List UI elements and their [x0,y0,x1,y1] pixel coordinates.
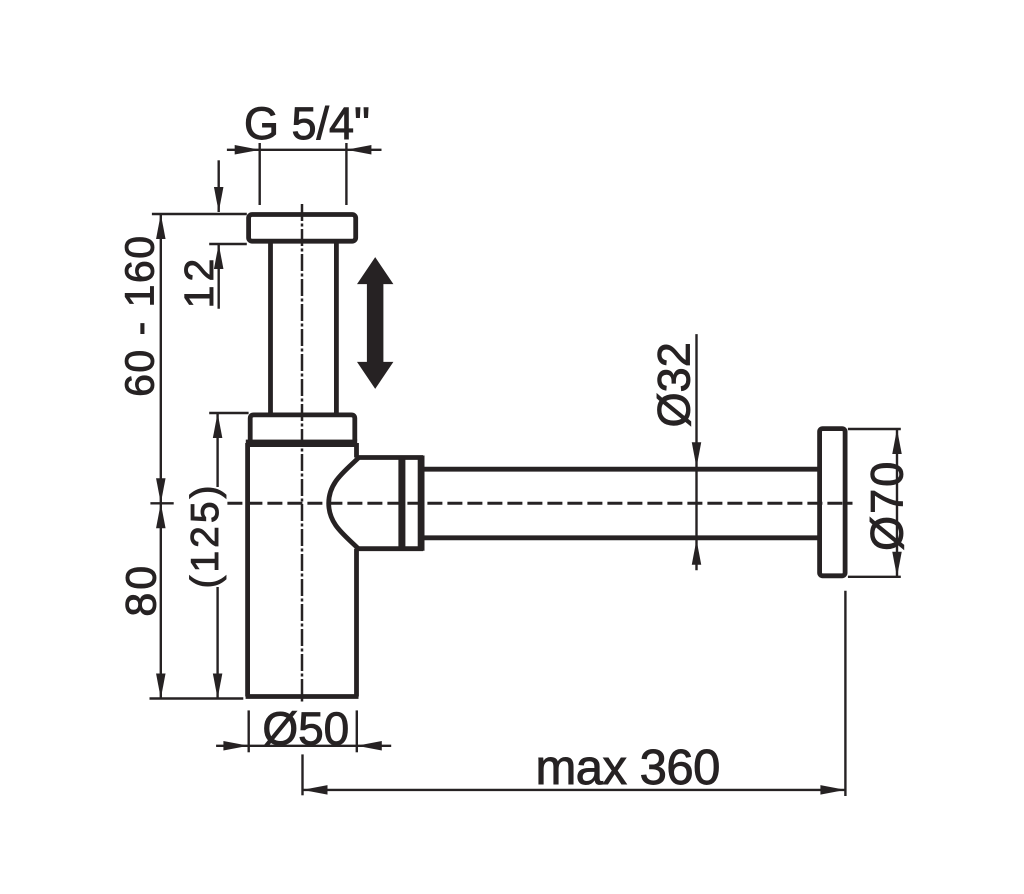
svg-text:max 360: max 360 [535,741,719,795]
outlet pipe top wall [425,467,818,472]
dimension max360 right extension [844,591,846,796]
arrowhead D70 top [892,429,902,454]
centerline vertical dash-dot [301,204,304,703]
elbow nut right edge [418,456,425,551]
dimension D50 line [216,745,391,747]
arrowhead 60-160 bottom [156,478,166,503]
arrowhead D32 top [692,442,702,467]
adjustment double arrow [357,257,393,389]
dimension max360 line [303,789,846,791]
centerline horizontal dashed [227,502,852,505]
arrowhead G5/4 right [346,145,371,155]
dimension max360 left extension [301,754,303,795]
dimension 12 lower leader [217,244,219,309]
top pipe tube left wall [268,243,273,414]
trap body cup left wall [245,443,250,697]
wall flange [820,429,846,576]
arrowhead 80 bottom [156,674,166,699]
arrowhead 12 top [214,187,224,212]
arrowhead 12 bottom [214,244,224,269]
svg-text:80: 80 [118,563,166,617]
extension line body bottom [150,697,244,699]
dimension 60-160 line [160,214,162,503]
svg-text:60 - 160: 60 - 160 [117,234,163,396]
arrowhead D32 bottom [692,540,702,565]
dimension 80 line [160,503,162,698]
elbow bullet curve [329,458,359,549]
outlet pipe bottom wall [425,535,818,540]
elbow outlet top edge [358,455,423,460]
dimension D32 leader through pipe [695,334,697,570]
arrowhead D50 left [223,741,248,751]
lower union nut [250,415,355,441]
trap body cup right wall upper segment [354,443,359,458]
svg-text:Ø50: Ø50 [262,703,349,755]
svg-text:G 5/4": G 5/4" [244,98,370,149]
dimension G 5/4 left extension [259,143,261,205]
svg-text:Ø70: Ø70 [861,460,912,551]
arrowhead 60-160 top [156,214,166,239]
dimension D70 top extension [848,428,901,430]
arrowhead max360 left [303,785,328,795]
trap body cup right wall lower segment [354,549,359,697]
arrowhead D70 bottom [892,552,902,577]
dimension G 5/4 right extension [345,143,347,205]
arrowhead G5/4 left [235,145,260,155]
dimension 125 line lower [216,587,218,699]
extension line flange bottom [209,243,247,245]
centerline tick left [150,502,173,504]
dimension G 5/4 line [227,149,382,151]
dimension D70 line [896,429,898,577]
svg-text:(125): (125) [184,482,227,588]
elbow outlet bottom edge [358,546,423,551]
svg-text:Ø32: Ø32 [648,342,699,427]
dimension 125 line upper [216,413,218,487]
extension line nut top [209,412,248,414]
dimension 12 upper leader [217,160,219,212]
arrowhead max360 right [820,785,845,795]
arrowhead D50 right [357,741,382,751]
arrowhead 125 bottom [213,674,223,699]
flange top nut G5/4 [249,215,356,242]
svg-text:12: 12 [176,255,222,309]
extension line flange top [152,213,247,215]
arrowhead 80 top [156,503,166,528]
elbow nut divider thick [398,456,405,550]
dimension D70 bottom extension [848,576,901,578]
dimension D50 left tick [247,710,249,752]
dimension D50 right tick [356,710,358,752]
trap body cup bottom [246,694,359,699]
arrowhead 125 top [213,413,223,438]
top pipe tube right wall [334,243,339,414]
gasket band [246,440,357,447]
